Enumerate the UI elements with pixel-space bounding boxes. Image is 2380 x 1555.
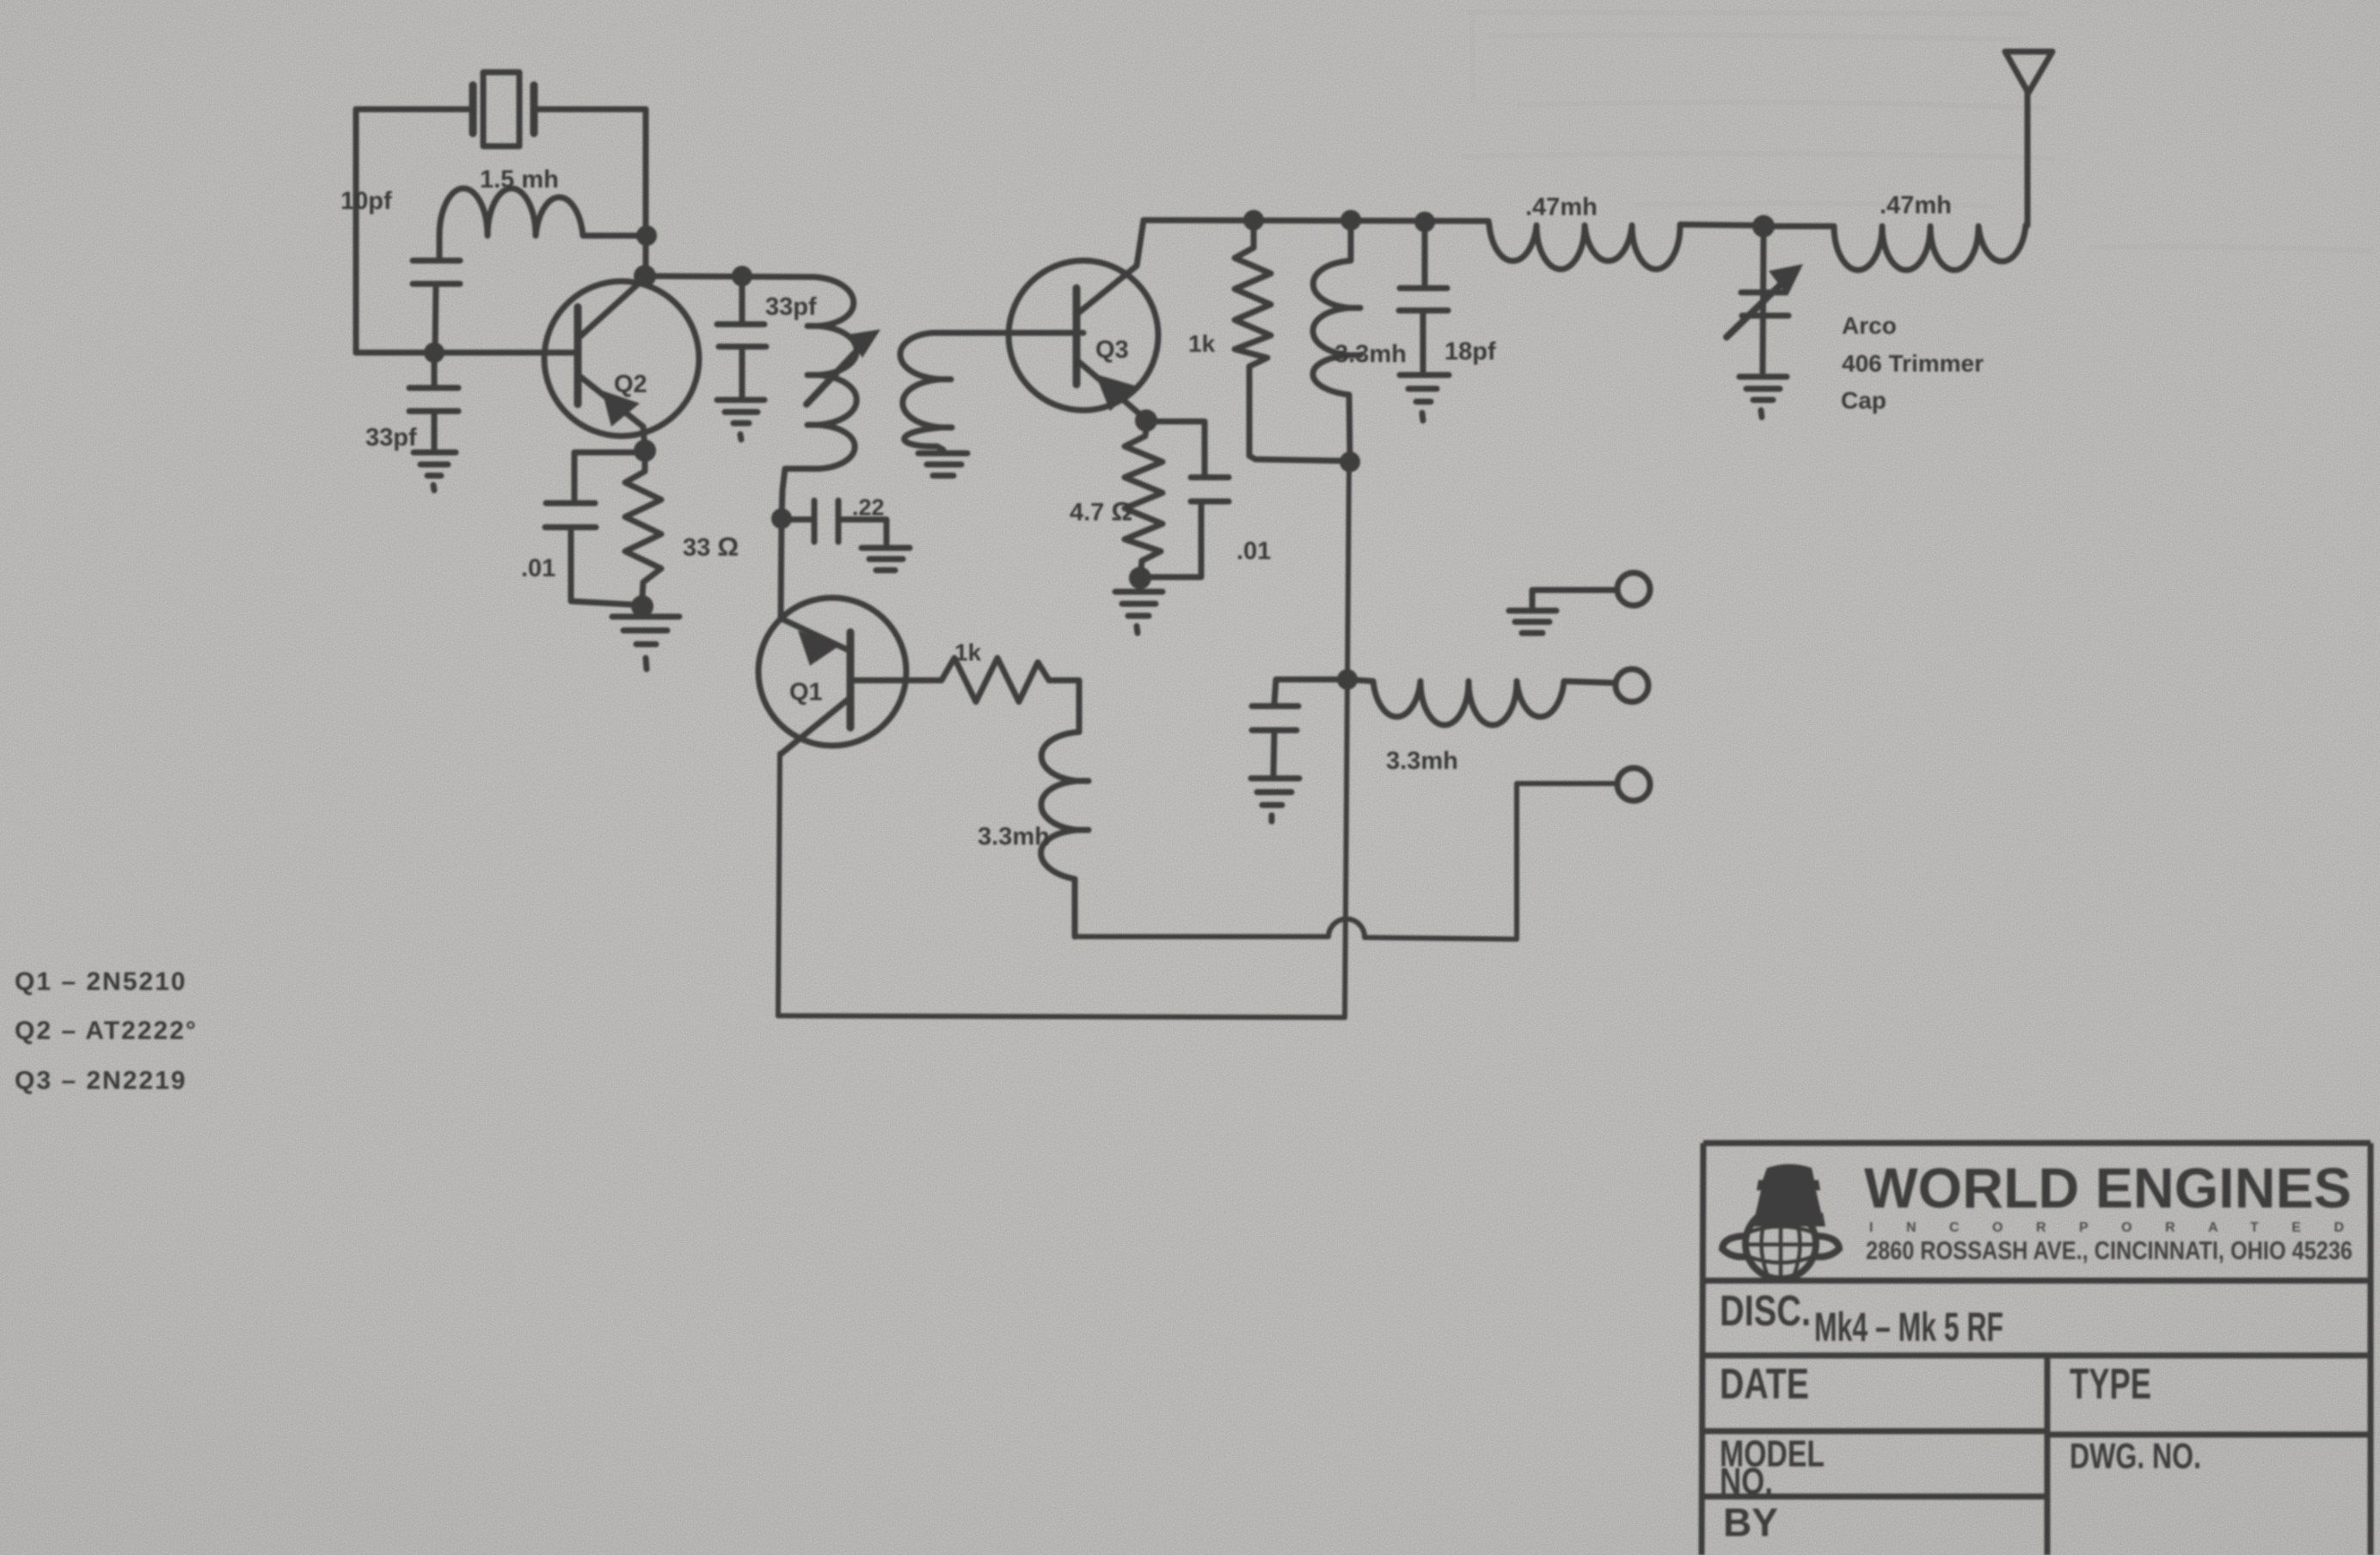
svg-text:.01: .01 bbox=[1236, 538, 1271, 565]
arrow (variable core T1) bbox=[807, 329, 880, 404]
svg-text:DATE: DATE bbox=[1720, 1360, 1809, 1408]
svg-text:10pf: 10pf bbox=[340, 187, 392, 215]
svg-text:.01: .01 bbox=[521, 555, 555, 582]
svg-text:33pf: 33pf bbox=[365, 424, 417, 452]
connector jack 2 bbox=[1616, 669, 1648, 702]
svg-text:Cap: Cap bbox=[1841, 387, 1886, 414]
svg-text:3.3mh: 3.3mh bbox=[978, 823, 1050, 851]
node junction dot (trimmer tap) bbox=[1752, 215, 1775, 237]
wire crystal top right bbox=[534, 107, 646, 113]
inductor T1 primary (variable) bbox=[782, 277, 856, 518]
wire collector rail to transformer bbox=[645, 276, 814, 277]
capacitor 10pf bbox=[413, 261, 460, 352]
svg-text:2860 ROSSASH AVE., CINCINNATI,: 2860 ROSSASH AVE., CINCINNATI, OHIO 4523… bbox=[1866, 1237, 2352, 1265]
wire oscillator loop left vertical bbox=[353, 109, 359, 353]
resistor 1k (Q1 base) bbox=[850, 658, 1079, 732]
wire Q2 base bbox=[356, 350, 578, 356]
connector jack 3 bbox=[1617, 768, 1650, 801]
svg-text:4.7 Ω: 4.7 Ω bbox=[1070, 496, 1132, 526]
svg-text:1k: 1k bbox=[1188, 330, 1216, 357]
svg-text:3.3mh: 3.3mh bbox=[1334, 341, 1407, 368]
node junction dot (10pf / base wire) bbox=[424, 342, 445, 363]
wire rail to second coil bbox=[1764, 224, 1832, 230]
svg-text:1k: 1k bbox=[954, 639, 982, 666]
ground (T1 secondary) bbox=[918, 453, 967, 476]
wire connector 1 to ground bbox=[1532, 590, 1616, 607]
node junction dot (18pf tap) bbox=[1414, 212, 1435, 232]
inductor 3.3mh (Q1 choke) bbox=[1041, 732, 1089, 937]
node junction dot (3.3mh tap) bbox=[1340, 210, 1361, 230]
capacitor 18pf bbox=[1399, 232, 1448, 371]
ground (Q2 emitter) bbox=[612, 617, 679, 669]
node junction dot (.22 / Q1) bbox=[771, 508, 792, 529]
antenna bbox=[2005, 52, 2052, 225]
ground (connector 1) bbox=[1509, 611, 1556, 633]
svg-text:18pf: 18pf bbox=[1445, 338, 1496, 366]
node junction dot (1k / 3.3mh bottom) bbox=[1340, 452, 1360, 472]
resistor 4.7 ohm bbox=[1125, 430, 1162, 569]
inductor L1 1.5 mh bbox=[439, 188, 637, 259]
svg-text:33pf: 33pf bbox=[765, 293, 817, 321]
resistor 1k (Q3 collector) bbox=[1235, 220, 1350, 461]
capacitor 33pf mid bbox=[717, 286, 766, 396]
capacitor .01 (Q3 emitter) bbox=[1146, 421, 1229, 577]
resistor 33 ohm bbox=[625, 451, 661, 597]
svg-text:406 Trimmer: 406 Trimmer bbox=[1842, 350, 1984, 377]
wire Q1 emitter down bbox=[778, 753, 780, 1016]
svg-text:33 Ω: 33 Ω bbox=[683, 532, 739, 562]
wire Q3 base bbox=[1077, 330, 1083, 336]
transistor Q1 bbox=[758, 519, 906, 753]
svg-text:1.5 mh: 1.5 mh bbox=[480, 166, 559, 194]
wire long vertical (emitter bus) bbox=[1345, 461, 1349, 1017]
node junction dot (33 ohm bottom) bbox=[631, 595, 653, 618]
capacitor (bypass on bus) bbox=[1252, 679, 1346, 775]
trimmer capacitor (Arco 406) bbox=[1727, 237, 1803, 372]
inductor 3.3mh (output) bbox=[1347, 679, 1615, 725]
svg-text:Q1: Q1 bbox=[789, 679, 823, 706]
inductor T1 secondary bbox=[900, 333, 1077, 450]
inductor 3.3mh (mid choke) bbox=[1313, 230, 1360, 461]
connector jack 1 bbox=[1617, 573, 1650, 605]
title block border bbox=[1702, 1143, 2371, 1555]
transistor Q2 bbox=[544, 278, 699, 436]
svg-text:Q3: Q3 bbox=[1095, 336, 1129, 364]
ground (4.7 ohm / .01) bbox=[1115, 592, 1162, 633]
svg-text:.47mh: .47mh bbox=[1880, 192, 1952, 219]
node junction dot (crystal loop / 1.5mh) bbox=[636, 225, 657, 246]
svg-text:BY: BY bbox=[1723, 1500, 1778, 1545]
svg-text:Q3 – 2N2219: Q3 – 2N2219 bbox=[15, 1066, 187, 1095]
node junction dot (4.7 ohm bottom) bbox=[1129, 567, 1151, 589]
capacitor 33pf left bbox=[409, 363, 458, 449]
ground (33pf mid) bbox=[717, 400, 764, 439]
svg-text:DWG. NO.: DWG. NO. bbox=[2070, 1435, 2201, 1476]
svg-text:Q2 – AT2222°: Q2 – AT2222° bbox=[15, 1017, 198, 1045]
wire bottom return (lower) bbox=[778, 1016, 1345, 1017]
capacitor .01 (Q2) bbox=[545, 452, 645, 605]
crystal Y1 bbox=[473, 72, 534, 146]
wire Q2 emitter to resistor bbox=[643, 427, 645, 450]
svg-text:TYPE: TYPE bbox=[2070, 1360, 2151, 1408]
svg-text:DISC.: DISC. bbox=[1720, 1287, 1811, 1335]
svg-text:Mk4 – Mk 5 RF: Mk4 – Mk 5 RF bbox=[1814, 1304, 2003, 1349]
transistor Q3 bbox=[1009, 220, 1158, 419]
logo World Engines emblem bbox=[1722, 1165, 1839, 1280]
ground (trimmer) bbox=[1739, 377, 1787, 417]
node junction dot (1k bias tap) bbox=[1243, 210, 1264, 230]
node junction dot (Q3 emitter) bbox=[1135, 409, 1157, 432]
wire top rail bbox=[1144, 220, 1488, 221]
node junction dot (Q2 collector) bbox=[634, 265, 656, 287]
ground (18pf) bbox=[1400, 375, 1449, 421]
wire crystal top left bbox=[356, 107, 471, 113]
node junction dot (emitter bus tap) bbox=[1337, 669, 1358, 690]
svg-text:NO.: NO. bbox=[1720, 1460, 1773, 1503]
svg-text:3.3mh: 3.3mh bbox=[1386, 747, 1458, 775]
node junction dot (Q2 emitter) bbox=[634, 439, 656, 462]
inductor .47mh (second) bbox=[1834, 224, 2027, 270]
svg-text:.22: .22 bbox=[852, 495, 885, 520]
svg-text:Arco: Arco bbox=[1842, 312, 1897, 339]
svg-text:.47mh: .47mh bbox=[1525, 194, 1598, 221]
ground (33pf left) bbox=[414, 452, 456, 490]
svg-text:Q2: Q2 bbox=[614, 371, 647, 398]
svg-text:Q1 – 2N5210: Q1 – 2N5210 bbox=[15, 968, 187, 996]
inductor .47mh (first) bbox=[1488, 221, 1752, 269]
ground (bypass cap) bbox=[1251, 778, 1299, 821]
node junction dot (33pf mid tap) bbox=[732, 266, 752, 286]
wire oscillator loop right vertical bbox=[643, 109, 649, 277]
wire middle return with hop bbox=[1075, 784, 1616, 939]
capacitor .22 bbox=[782, 501, 886, 544]
ground (.22) bbox=[862, 548, 910, 570]
svg-text:WORLD ENGINES: WORLD ENGINES bbox=[1864, 1156, 2352, 1220]
